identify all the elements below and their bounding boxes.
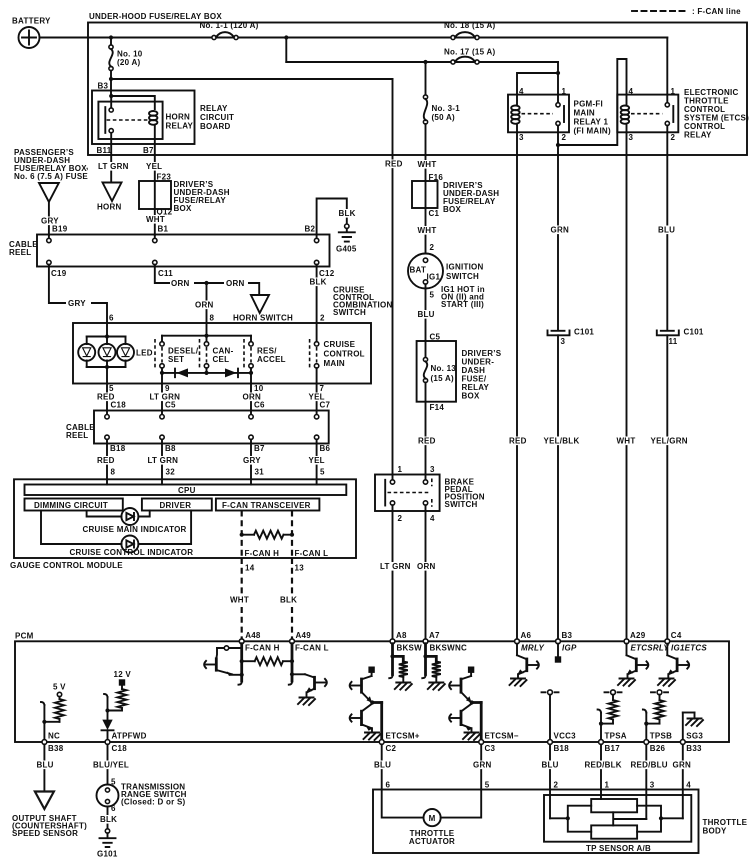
TP sensor B resistor (591, 825, 637, 838)
wire through F23 box (154, 181, 156, 209)
svg-text:RELAY: RELAY (166, 122, 194, 131)
svg-text:No. 13: No. 13 (431, 364, 457, 373)
svg-text:5: 5 (485, 781, 490, 790)
label YEL/GRN (650, 437, 688, 446)
svg-text:C6: C6 (254, 401, 265, 410)
svg-text:BOARD: BOARD (200, 122, 231, 131)
TPSA node (605, 690, 622, 700)
wire output to C2 (372, 703, 381, 742)
svg-text:LED: LED (136, 349, 153, 358)
svg-text:No. 17 (15 A): No. 17 (15 A) (444, 48, 495, 57)
ETCS relay contacts (665, 95, 673, 133)
svg-text:LT GRN: LT GRN (380, 562, 411, 571)
label BLK (338, 209, 355, 218)
svg-text:SWITCH: SWITCH (445, 500, 478, 509)
terminal C4 (665, 631, 682, 644)
wire brake pin 4 ORN to PCM A7 (425, 505, 427, 641)
wire F14 to brake switch (425, 383, 427, 475)
wire TPSB branch (646, 713, 659, 724)
node TPSA (599, 722, 603, 726)
svg-text:RED/BLU: RED/BLU (631, 761, 668, 770)
node A7 (423, 654, 427, 658)
label BLU (657, 226, 674, 235)
transistor Q3 (MRLY) (517, 644, 537, 678)
svg-text:No. 18 (15 A): No. 18 (15 A) (444, 21, 495, 30)
svg-text:ETCSRLY: ETCSRLY (631, 644, 670, 653)
svg-text:C11: C11 (158, 269, 173, 278)
svg-text:F14: F14 (430, 403, 445, 412)
hook Q4 base (647, 661, 649, 668)
svg-text:B18: B18 (110, 444, 126, 453)
label GRY (40, 217, 57, 226)
label HORN RELAY (166, 113, 194, 131)
dimming circuit box (25, 499, 123, 511)
svg-text:4: 4 (686, 781, 691, 790)
PGM relay coil (511, 95, 519, 133)
label WHT (616, 437, 633, 446)
wire TPSA branch (601, 713, 613, 724)
svg-text:5: 5 (430, 291, 435, 300)
wire No.10 to B3 node (110, 71, 112, 80)
svg-text:A48: A48 (245, 631, 261, 640)
svg-text:(20 A): (20 A) (117, 58, 141, 67)
wire C11 ORN down and right to horn switch (155, 267, 259, 296)
svg-text:CEL: CEL (213, 355, 230, 364)
svg-text:SPEED SENSOR: SPEED SENSOR (12, 829, 78, 838)
svg-text:GRY: GRY (68, 299, 86, 308)
wire to C7 (316, 384, 318, 411)
transistor Q4 (ETCSRLY) (627, 644, 647, 678)
gauge control module box (14, 479, 356, 558)
cable reel 2 terminals x107 (105, 411, 109, 444)
hook Q5 base (687, 661, 689, 668)
ETCSM- supply node (468, 667, 474, 677)
svg-text:A29: A29 (630, 631, 646, 640)
node ETCSM- output (470, 700, 474, 704)
terminal A29 (624, 631, 646, 644)
svg-text:ORN: ORN (195, 301, 214, 310)
brake switch dashed link (388, 492, 430, 494)
label ORN (194, 301, 211, 310)
LED lamp x107 (99, 344, 116, 361)
svg-text:3: 3 (519, 133, 524, 142)
wire B11 down to under-hood edge (110, 133, 112, 155)
svg-text:A8: A8 (396, 631, 407, 640)
PGM relay contacts (556, 95, 564, 133)
wire F-CAN H dashed to PCM (241, 558, 243, 641)
label RED (508, 437, 525, 446)
TP sensor A resistor (591, 799, 637, 812)
node A49 resistor (290, 659, 294, 663)
label PGM-FI MAIN RELAY 1 (FI MAIN) (574, 100, 611, 136)
cable reel 2 terminals x251 (249, 411, 253, 444)
svg-text:A49: A49 (296, 631, 312, 640)
svg-text:BKSWNC: BKSWNC (430, 644, 468, 653)
wire PGM pin2 down to C101 (557, 145, 559, 330)
svg-text:TPSB: TPSB (650, 732, 672, 741)
wire pin4 to right node (661, 817, 683, 819)
brake switch contact blades (431, 479, 433, 507)
wire branch to horn relay coil (111, 96, 155, 109)
transistor Q2 (F-CAN L) (292, 674, 325, 696)
fuse No. 13 (15 A) (423, 341, 456, 383)
svg-text:TP SENSOR A/B: TP SENSOR A/B (586, 844, 651, 853)
ground MRLY (510, 679, 527, 687)
wire pin2 to left node (550, 817, 568, 819)
svg-text:IG1: IG1 (427, 273, 441, 282)
driver's under-dash fuse box F23 (139, 181, 171, 209)
svg-text:LT GRN: LT GRN (148, 456, 179, 465)
wire B38 to speed sensor (43, 744, 45, 791)
svg-text:BLU: BLU (542, 761, 559, 770)
hook Q9 base (449, 714, 451, 721)
node F-CAN H resistor (240, 533, 244, 537)
svg-text:3: 3 (650, 781, 655, 790)
output shaft speed sensor triangle (35, 792, 54, 810)
svg-text:11: 11 (669, 337, 678, 346)
svg-text:B2: B2 (305, 225, 316, 234)
label CRUISE CONTROL COMBINATION SWITCH (333, 286, 392, 318)
hook ATPFWD stub (104, 694, 107, 697)
horn relay armature bar (104, 107, 106, 133)
cruise control main switch (310, 323, 319, 370)
cruise control indicator lamp (121, 536, 138, 553)
wire motor to pin 5 (441, 790, 482, 818)
ETCS relay coil (621, 95, 629, 133)
ground IG1ETCS (658, 679, 675, 687)
svg-text:DRIVER: DRIVER (160, 501, 192, 510)
svg-text:MRLY: MRLY (521, 644, 544, 653)
transistor Q1 (F-CAN H) (206, 648, 242, 676)
LED top bus (87, 336, 126, 338)
resistor 12V pull-up (118, 689, 127, 708)
svg-text:(15 A): (15 A) (431, 374, 455, 383)
ETCSM+ supply node (368, 667, 374, 677)
svg-text:CRUISE CONTROL INDICATOR: CRUISE CONTROL INDICATOR (70, 548, 194, 557)
svg-text:GRN: GRN (473, 761, 492, 770)
svg-text:RED: RED (385, 160, 403, 169)
switch RES/ACCEL contacts (244, 336, 253, 370)
wire B26 RED/BLU to TP sensor (645, 744, 647, 819)
label WHT (229, 596, 246, 605)
LED lamp x125.5 (117, 344, 134, 361)
wire y79 bus to RED drop (111, 78, 393, 80)
resistor BKSWNC pull-down (426, 656, 441, 681)
svg-text:B11: B11 (97, 146, 112, 155)
wire No.3-1 branch (425, 62, 427, 95)
wire C3 GRN to throttle actuator (480, 744, 482, 789)
wire F-CAN L dashed to PCM (291, 558, 293, 641)
svg-text:CRUISE: CRUISE (324, 340, 356, 349)
svg-text:BAT: BAT (410, 266, 427, 275)
label PASSENGER'S UNDER-DASH FUSE/RELAY BOX No.6 (14, 148, 88, 181)
ground Q2 (298, 698, 315, 706)
svg-text:12 V: 12 V (114, 670, 132, 679)
svg-text:: F-CAN line: : F-CAN line (692, 7, 741, 16)
label YEL (145, 162, 162, 171)
label RED/BLU (630, 761, 668, 770)
label RES/ ACCEL (257, 347, 286, 365)
label OUTPUT SHAFT (COUNTERSHAFT) SPEED SENSOR (12, 814, 87, 838)
node B3 branch (109, 94, 113, 98)
wire through F16 (425, 181, 427, 208)
svg-text:2: 2 (320, 314, 325, 323)
node battery bus / No.17 branch (284, 35, 288, 39)
svg-text:F-CAN TRANSCEIVER: F-CAN TRANSCEIVER (222, 501, 311, 510)
wire A48 internal (240, 644, 243, 681)
terminal B26 (644, 740, 649, 745)
svg-text:BLK: BLK (310, 278, 327, 287)
svg-text:M: M (429, 814, 436, 823)
node A48 emitter (240, 673, 244, 677)
svg-text:MAIN: MAIN (574, 109, 595, 118)
svg-text:(Closed: D or S): (Closed: D or S) (121, 798, 186, 807)
horn triangle (103, 183, 122, 202)
svg-text:WHT: WHT (418, 160, 437, 169)
label BLK (279, 596, 296, 605)
wire Q12 to cable reel B1 (154, 209, 156, 235)
driver's under-dash fuse/relay box (No.13) (417, 341, 456, 402)
svg-text:B17: B17 (605, 744, 621, 753)
wire ATPFWD branch (108, 697, 123, 711)
wire C12 BLK down to switch pin 2 (316, 267, 318, 324)
LED lamp x86.7 (78, 344, 95, 361)
terminal A48 (239, 631, 261, 644)
svg-text:6: 6 (109, 314, 114, 323)
node ATPFWD (105, 708, 109, 712)
wire throttle actuator loop (382, 790, 424, 818)
svg-text:ATPFWD: ATPFWD (112, 732, 147, 741)
svg-text:BOX: BOX (462, 392, 481, 401)
svg-text:A7: A7 (429, 631, 440, 640)
svg-text:RED: RED (97, 456, 115, 465)
label BLK (309, 278, 326, 287)
svg-text:YEL: YEL (309, 456, 325, 465)
label ORN (416, 562, 433, 571)
label BRAKE PEDAL POSITION SWITCH (445, 478, 485, 510)
wire TP right link (637, 806, 661, 832)
switch top bus (162, 335, 251, 337)
svg-text:ORN: ORN (171, 279, 190, 288)
label RED (96, 456, 113, 465)
svg-text:B7: B7 (254, 444, 265, 453)
hook Q8 base (449, 682, 451, 689)
svg-text:GRY: GRY (243, 456, 261, 465)
svg-text:C4: C4 (671, 631, 682, 640)
connector C101 (pin 3) (548, 331, 570, 336)
svg-text:SET: SET (168, 355, 184, 364)
label YEL (308, 456, 325, 465)
terminating resistor (242, 531, 292, 539)
svg-text:C18: C18 (112, 744, 128, 753)
ground G101 (100, 829, 116, 847)
fuse No. 1-1 (120 A) (200, 21, 259, 40)
svg-text:(FI MAIN): (FI MAIN) (574, 127, 611, 136)
under-hood fuse/relay box (88, 23, 747, 156)
ground BKSWNC (428, 683, 445, 691)
svg-text:G101: G101 (97, 850, 118, 859)
ground BKSW (395, 683, 412, 691)
svg-text:REEL: REEL (66, 431, 88, 440)
node y79 bus (109, 77, 113, 81)
terminal B17 (599, 740, 604, 745)
node LED bus top (105, 334, 109, 338)
F-CAN H driver node (217, 646, 242, 650)
hook TPSA stub (598, 710, 601, 713)
label WHT (417, 160, 434, 169)
stub to bottom bus (206, 368, 208, 373)
fuse No. 17 (15 A) (444, 48, 495, 65)
wire NC branch (44, 705, 59, 722)
label BLU (36, 761, 53, 770)
legend F-CAN line (632, 7, 741, 16)
svg-text:ETCSM−: ETCSM− (485, 732, 519, 741)
node bottom bus right (249, 371, 253, 375)
svg-text:BLK: BLK (339, 209, 356, 218)
svg-text:2: 2 (398, 514, 403, 523)
wire to B17 (600, 724, 602, 741)
label LT GRN (379, 562, 412, 571)
label DRIVER'S UNDER-DASH FUSE/RELAY BOX (174, 180, 230, 213)
transistor Q8 (ETCSM- high) (451, 676, 472, 703)
svg-text:CONTROL: CONTROL (324, 350, 365, 359)
wires cable reel to CPU (106, 444, 108, 485)
label IG1 HOT note (441, 285, 485, 309)
label THROTTLE BODY (703, 818, 748, 836)
wire B17 RED/BLK to TP sensor (600, 744, 602, 799)
label CABLE REEL (66, 423, 95, 440)
svg-text:No. 1-1 (120 A): No. 1-1 (120 A) (200, 21, 259, 30)
wire cruise main indicator row (87, 511, 122, 517)
hook NC stub (41, 702, 44, 705)
label RED (96, 393, 113, 402)
svg-text:(50 A): (50 A) (432, 113, 456, 122)
wire indicator to driver (138, 511, 149, 517)
svg-text:C5: C5 (165, 401, 176, 410)
wire B7 to F23 (154, 155, 156, 181)
ground ETCSM- (463, 733, 480, 741)
SG3 ground lead (683, 713, 695, 742)
svg-text:BLU: BLU (418, 310, 435, 319)
terminal B38 (42, 740, 47, 745)
svg-text:3: 3 (629, 133, 634, 142)
svg-text:WHT: WHT (146, 215, 165, 224)
label BLU (541, 761, 558, 770)
svg-text:RELAY: RELAY (200, 104, 228, 113)
label WHT (417, 226, 434, 235)
wire A7 internal (424, 644, 427, 675)
stub to bottom bus (161, 368, 163, 373)
node bottom bus mid (204, 371, 208, 375)
svg-text:BKSW: BKSW (397, 644, 423, 653)
IGP power node (555, 644, 561, 663)
svg-text:HORN SWITCH: HORN SWITCH (233, 314, 293, 323)
wire indicator2 to driver (138, 511, 191, 545)
svg-text:F-CAN H: F-CAN H (245, 549, 280, 558)
diode to ATPFWD (102, 711, 114, 742)
cable reel box 2 (94, 411, 329, 444)
svg-text:F-CAN L: F-CAN L (295, 549, 329, 558)
label DRIVER'S UNDER-DASH FUSE/RELAY BOX (443, 181, 499, 214)
wire B2 to G405 ground (317, 199, 347, 235)
switch bottom bus (162, 372, 251, 374)
hook Q7 base (350, 714, 352, 721)
svg-text:BOX: BOX (174, 204, 193, 213)
wire to B26 (645, 724, 647, 741)
svg-text:VCC3: VCC3 (554, 732, 577, 741)
diode D2 pointing right (225, 368, 238, 377)
transistor Q7 (ETCSM+ low) (352, 704, 373, 732)
horn relay coil (149, 111, 157, 116)
svg-text:B3: B3 (562, 631, 573, 640)
svg-text:GAUGE CONTROL MODULE: GAUGE CONTROL MODULE (10, 561, 123, 570)
terminal C18 (105, 740, 110, 745)
label YEL (308, 393, 325, 402)
svg-text:HORN: HORN (166, 113, 191, 122)
wire No.18 to ETCS pin 1 (666, 38, 668, 95)
svg-text:WHT: WHT (617, 437, 636, 446)
svg-text:No. 6 (7.5 A) FUSE: No. 6 (7.5 A) FUSE (14, 172, 88, 181)
svg-text:8: 8 (111, 468, 116, 477)
switch CAN-CEL contacts (200, 336, 209, 370)
label THROTTLE ACTUATOR (409, 829, 455, 846)
cable reel 1 terminals x154.8 (153, 235, 157, 267)
cable reel box 1 (37, 235, 330, 267)
wire cruise control indicator row (41, 511, 121, 545)
svg-text:5 V: 5 V (53, 683, 66, 692)
ETCS control relay box (617, 95, 678, 133)
wire to C5 (161, 384, 163, 411)
node A48 resistor (240, 659, 244, 663)
svg-text:SWITCH: SWITCH (446, 272, 479, 281)
svg-text:YEL: YEL (146, 162, 162, 171)
svg-text:BODY: BODY (703, 827, 728, 836)
wire PGM pin2 to ETCS coil feed (558, 59, 627, 145)
TPSB node (651, 690, 668, 700)
svg-text:2: 2 (430, 243, 435, 252)
transistor Q6 (ETCSM+ high) (352, 676, 373, 703)
svg-text:RED: RED (418, 437, 436, 446)
wire No.17 line (286, 61, 558, 63)
svg-text:1: 1 (605, 781, 610, 790)
svg-text:B8: B8 (165, 444, 176, 453)
fuse No. 3-1 (50 A) (423, 95, 460, 124)
resistor TPSB (655, 700, 664, 720)
label IGNITION SWITCH (446, 263, 484, 282)
label CABLE REEL (9, 240, 38, 257)
cable reel 2 terminals x162 (160, 411, 164, 444)
label LT GRN (97, 162, 130, 171)
svg-text:IGP: IGP (562, 644, 577, 653)
svg-text:8: 8 (210, 314, 215, 323)
svg-text:GRN: GRN (673, 761, 692, 770)
node NC (42, 720, 46, 724)
wire pin 8 into box (206, 323, 208, 336)
resistor BKSW pull-down (393, 656, 408, 681)
transistor Q5 (IG1ETCS) (667, 644, 687, 678)
svg-text:ACTUATOR: ACTUATOR (409, 837, 455, 846)
svg-text:B38: B38 (48, 744, 64, 753)
LED stubs (87, 337, 126, 368)
wire C1 to ignition switch (425, 208, 427, 254)
wire B33 GRN to TP sensor (682, 744, 684, 818)
wire YEL/BLK to PCM B3 (557, 335, 559, 641)
label WHT (145, 215, 162, 224)
relay circuit board box (92, 91, 195, 145)
svg-text:RELAY 1: RELAY 1 (574, 118, 609, 127)
svg-text:B7: B7 (143, 146, 154, 155)
CPU box (25, 485, 347, 496)
